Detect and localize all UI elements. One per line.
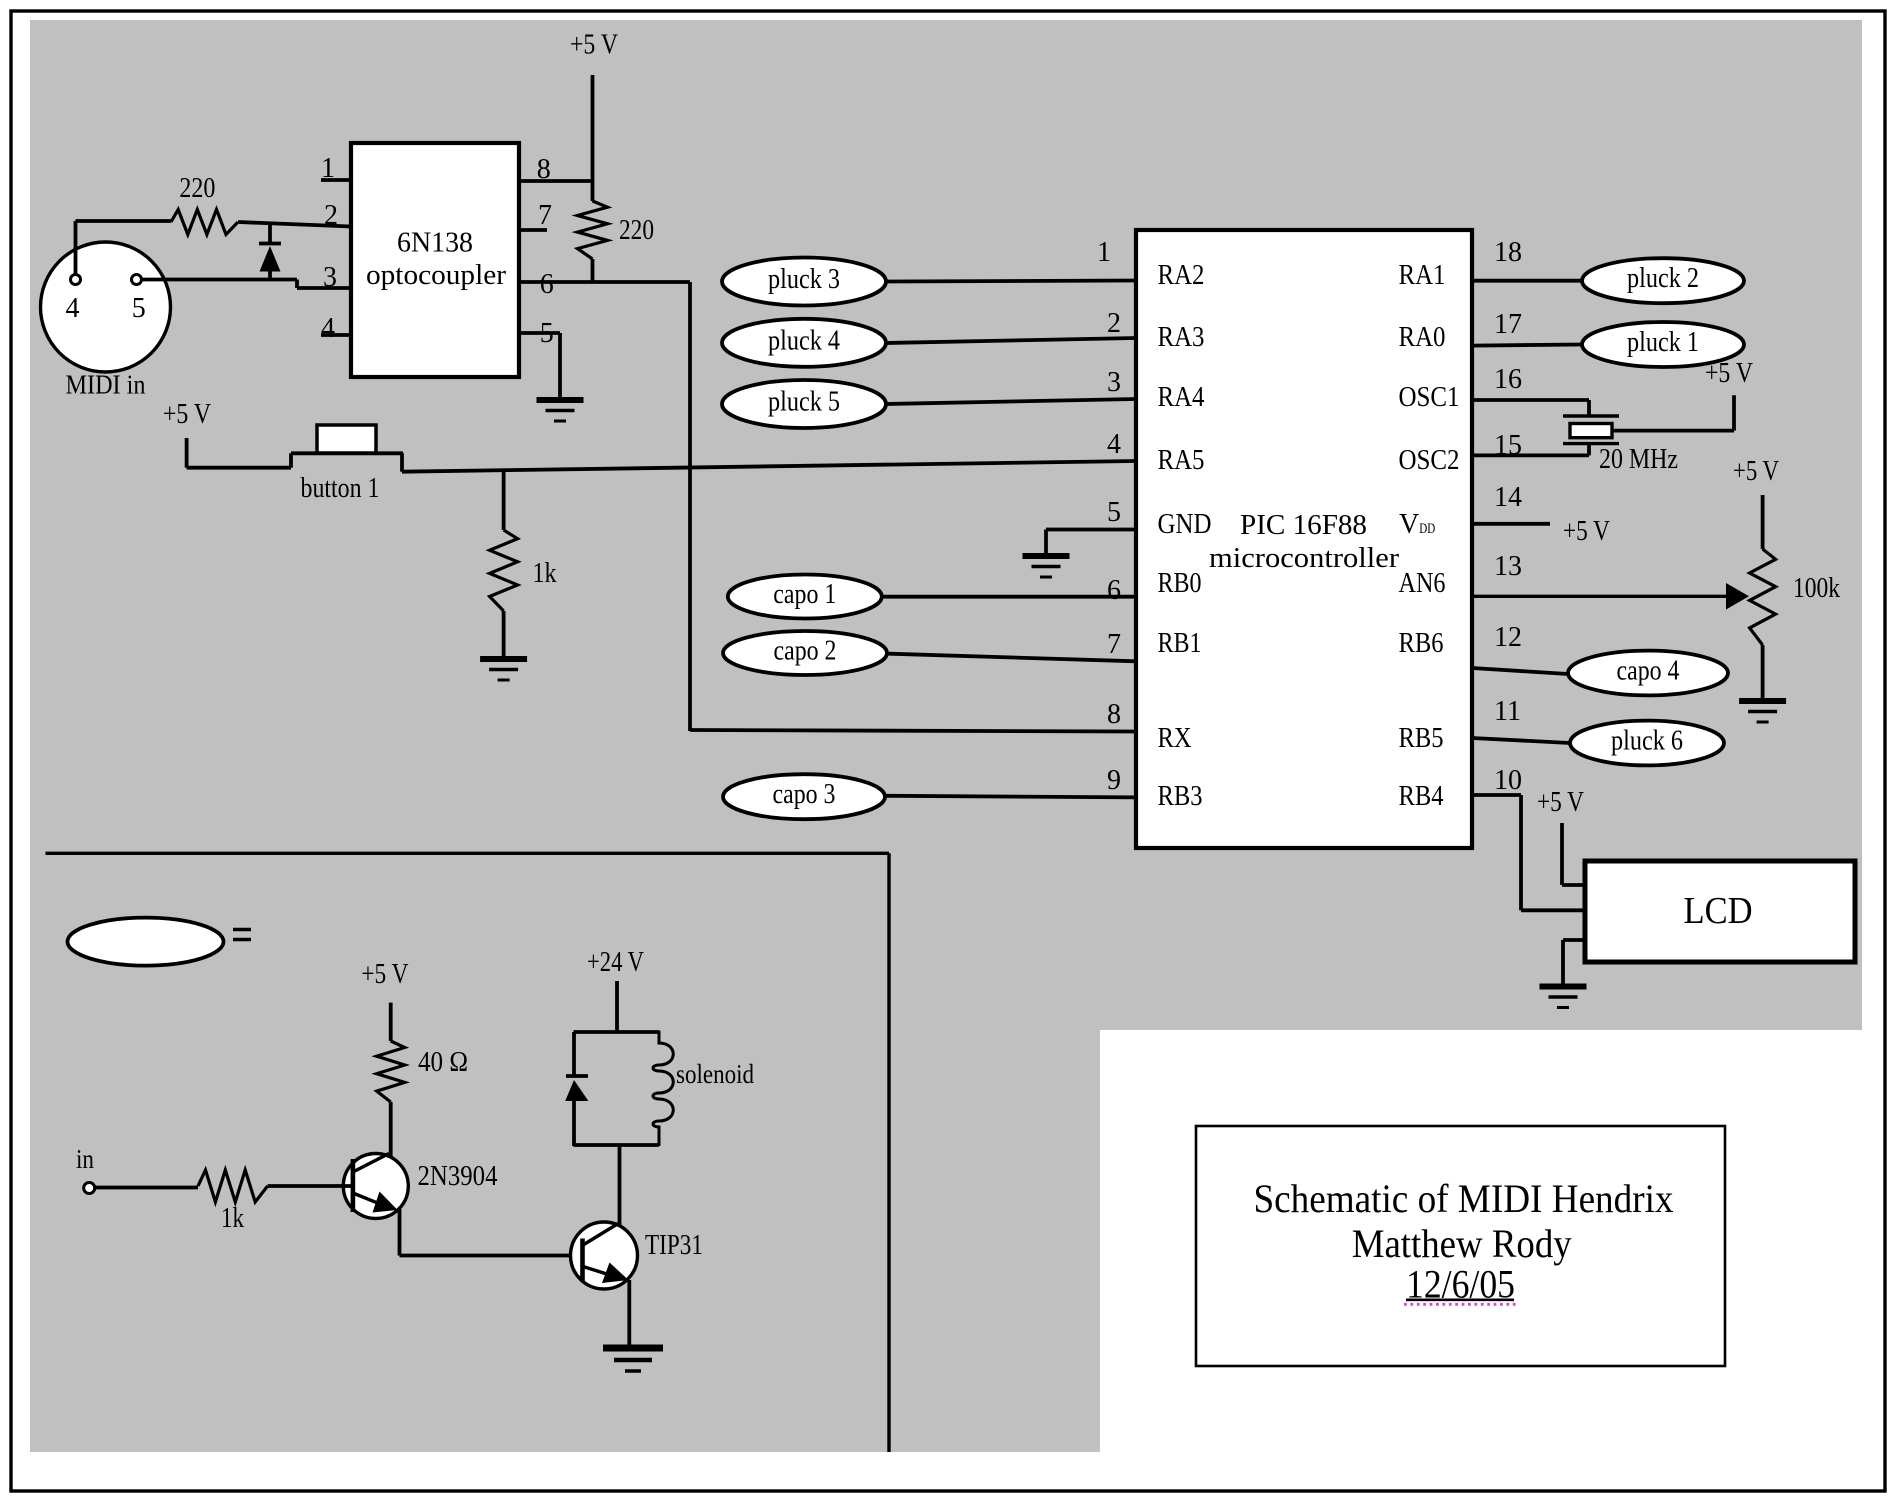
svg-text:OSC2: OSC2	[1399, 445, 1460, 476]
svg-text:Matthew Rody: Matthew Rody	[1352, 1221, 1572, 1266]
svg-text:optocoupler: optocoupler	[366, 260, 507, 291]
svg-text:8: 8	[1107, 699, 1121, 730]
svg-text:17: 17	[1494, 309, 1522, 340]
svg-text:RB6: RB6	[1399, 628, 1444, 659]
svg-text:+5 V: +5 V	[361, 958, 408, 990]
svg-text:RA2: RA2	[1158, 260, 1205, 291]
svg-text:capo 1: capo 1	[773, 579, 836, 610]
svg-text:13: 13	[1494, 551, 1522, 582]
svg-text:+5 V: +5 V	[1563, 515, 1610, 547]
svg-text:+5 V: +5 V	[1705, 357, 1753, 389]
svg-text:pluck 3: pluck 3	[768, 264, 840, 295]
svg-text:5: 5	[1107, 497, 1121, 528]
svg-text:4: 4	[321, 313, 335, 344]
svg-text:1: 1	[1097, 237, 1111, 268]
svg-text:RB1: RB1	[1158, 628, 1202, 659]
svg-text:7: 7	[1107, 629, 1121, 660]
svg-text:pluck 4: pluck 4	[768, 325, 840, 356]
svg-text:+5 V: +5 V	[1537, 786, 1584, 818]
svg-text:capo 4: capo 4	[1617, 656, 1680, 687]
svg-text:MIDI in: MIDI in	[66, 370, 146, 400]
svg-text:1k: 1k	[221, 1202, 244, 1234]
svg-text:+5 V: +5 V	[1733, 455, 1779, 487]
svg-text:solenoid: solenoid	[676, 1059, 754, 1089]
svg-text:AN6: AN6	[1399, 568, 1446, 599]
svg-text:pluck 5: pluck 5	[768, 387, 840, 418]
svg-text:220: 220	[619, 214, 654, 246]
svg-text:15: 15	[1494, 430, 1522, 461]
svg-text:6: 6	[1107, 575, 1121, 606]
svg-text:RB0: RB0	[1158, 568, 1202, 599]
svg-text:OSC1: OSC1	[1399, 382, 1460, 413]
svg-text:PIC 16F88: PIC 16F88	[1240, 509, 1367, 541]
svg-text:RX: RX	[1158, 723, 1192, 754]
svg-text:5: 5	[540, 318, 554, 349]
svg-text:2: 2	[1107, 308, 1121, 339]
svg-text:10: 10	[1494, 765, 1522, 796]
svg-text:GND: GND	[1158, 509, 1212, 540]
svg-text:220: 220	[179, 172, 215, 204]
svg-text:2N3904: 2N3904	[418, 1160, 498, 1192]
svg-text:3: 3	[323, 262, 337, 293]
svg-text:1: 1	[321, 153, 335, 184]
svg-text:Schematic of MIDI Hendrix: Schematic of MIDI Hendrix	[1254, 1176, 1674, 1221]
svg-text:button 1: button 1	[301, 472, 380, 504]
svg-text:8: 8	[537, 154, 551, 185]
svg-text:5: 5	[132, 293, 146, 324]
svg-text:pluck 1: pluck 1	[1627, 327, 1699, 358]
svg-text:pluck 6: pluck 6	[1611, 726, 1683, 757]
svg-text:RA3: RA3	[1158, 322, 1205, 353]
svg-text:9: 9	[1107, 765, 1121, 796]
svg-text:capo 3: capo 3	[773, 779, 836, 810]
svg-text:+24 V: +24 V	[587, 946, 644, 978]
svg-text:7: 7	[538, 200, 552, 231]
svg-text:1k: 1k	[533, 557, 557, 589]
svg-text:14: 14	[1494, 482, 1522, 513]
svg-text:4: 4	[66, 293, 80, 324]
svg-text:RA5: RA5	[1158, 445, 1205, 476]
svg-text:6N138: 6N138	[397, 228, 473, 259]
svg-text:4: 4	[1107, 429, 1121, 460]
svg-text:2: 2	[324, 200, 338, 231]
svg-text:RA1: RA1	[1399, 260, 1446, 291]
svg-text:pluck 2: pluck 2	[1627, 263, 1699, 294]
svg-text:11: 11	[1494, 696, 1521, 727]
svg-text:LCD: LCD	[1684, 890, 1753, 932]
svg-text:RB3: RB3	[1158, 781, 1203, 812]
svg-text:6: 6	[540, 269, 554, 300]
svg-text:RA0: RA0	[1399, 322, 1446, 353]
svg-text:TIP31: TIP31	[645, 1229, 703, 1261]
svg-text:RB5: RB5	[1399, 723, 1444, 754]
svg-text:12: 12	[1494, 622, 1522, 653]
svg-text:20 MHz: 20 MHz	[1599, 443, 1678, 475]
svg-text:microcontroller: microcontroller	[1209, 542, 1399, 574]
svg-text:RA4: RA4	[1158, 382, 1205, 413]
svg-text:100k: 100k	[1793, 572, 1840, 604]
svg-text:18: 18	[1494, 237, 1522, 268]
svg-text:+5 V: +5 V	[163, 398, 211, 430]
svg-text:16: 16	[1494, 364, 1522, 395]
svg-text:RB4: RB4	[1399, 781, 1444, 812]
svg-text:capo 2: capo 2	[774, 636, 837, 667]
svg-text:40 Ω: 40 Ω	[418, 1046, 468, 1078]
svg-text:3: 3	[1107, 367, 1121, 398]
svg-text:in: in	[76, 1144, 94, 1174]
svg-text:+5 V: +5 V	[570, 29, 618, 61]
